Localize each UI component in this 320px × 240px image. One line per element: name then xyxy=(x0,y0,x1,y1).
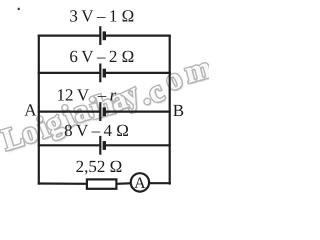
watermark Loigiaihay.com xyxy=(0,49,216,159)
wire branch 2 right xyxy=(104,72,171,74)
resistor 2,52 ohm xyxy=(87,179,117,188)
svg-text:2,52 Ω: 2,52 Ω xyxy=(76,157,123,176)
wire branch 1 right xyxy=(104,34,171,36)
wire branch 5 left xyxy=(38,182,87,185)
svg-text:8 V – 4 Ω: 8 V – 4 Ω xyxy=(64,121,129,140)
svg-text:A: A xyxy=(134,175,146,192)
wire ammeter to right bus xyxy=(150,182,171,184)
speck artifact top-left xyxy=(18,8,20,11)
svg-text:12 V – r: 12 V – r xyxy=(57,85,117,104)
svg-text:A: A xyxy=(24,101,37,120)
wire right bus B xyxy=(169,35,171,185)
wire branch 1 left xyxy=(38,34,101,36)
wire branch 2 left xyxy=(38,72,101,74)
battery E1 (3 V - 1 ohm) xyxy=(100,26,104,45)
svg-text:3 V – 1 Ω: 3 V – 1 Ω xyxy=(69,7,134,26)
wire branch 4 right xyxy=(104,144,171,146)
battery E3 (12 V - r) xyxy=(100,102,104,121)
ammeter A xyxy=(131,173,149,192)
wire branch 4 left xyxy=(38,144,101,146)
wire branch 3 right xyxy=(104,110,171,112)
wire left bus A xyxy=(38,35,40,185)
svg-text:6 V – 2 Ω: 6 V – 2 Ω xyxy=(69,47,134,66)
wire branch 3 left xyxy=(38,110,101,112)
svg-text:B: B xyxy=(173,101,184,120)
battery E4 (8 V - 4 ohm) xyxy=(100,136,104,155)
wire resistor to ammeter xyxy=(116,182,130,185)
battery E2 (6 V - 2 ohm) xyxy=(100,64,104,83)
